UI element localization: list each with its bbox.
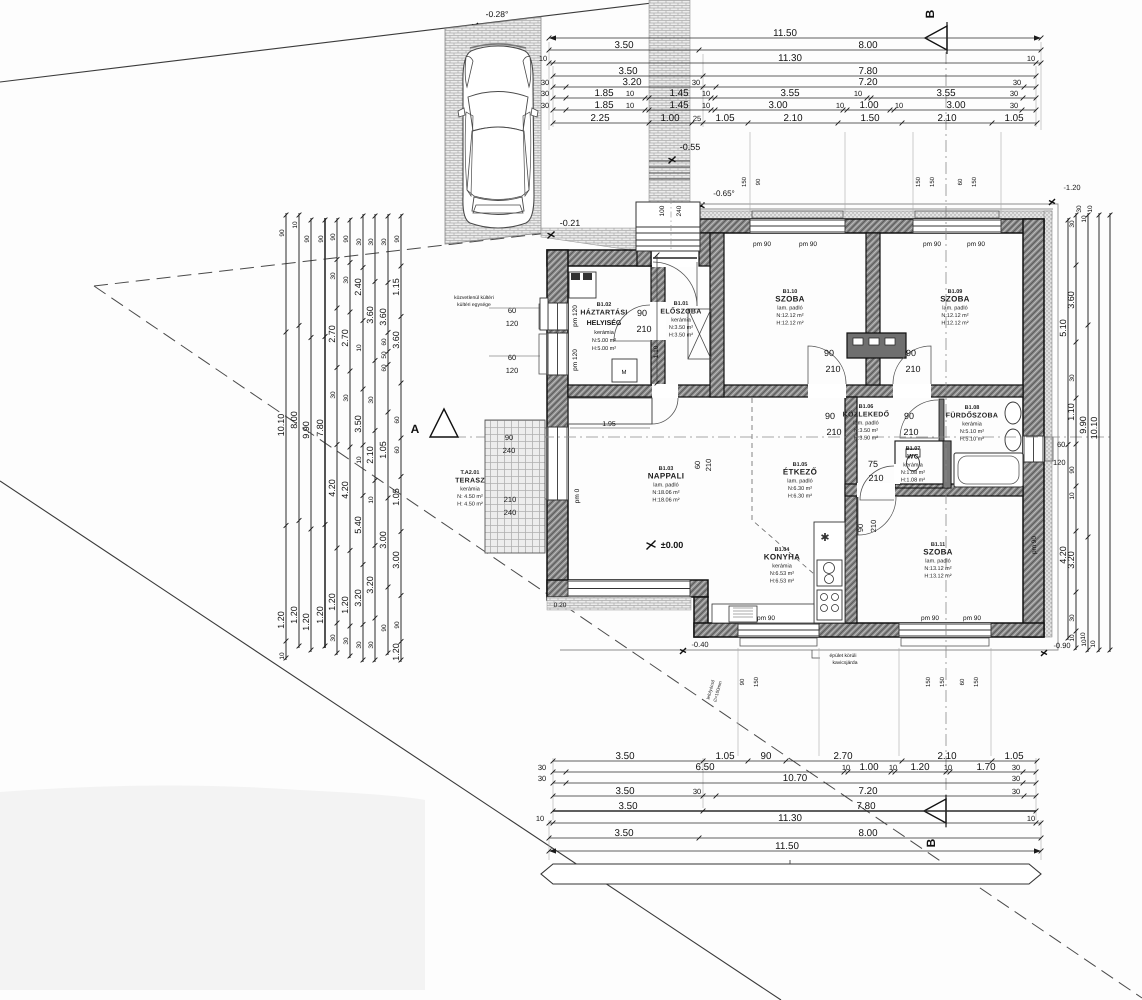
window east bathroom [1023,436,1044,462]
svg-text:90: 90 [906,348,916,358]
svg-text:H:13.12 m²: H:13.12 m² [924,573,951,579]
dimension column right 5 [1109,213,1111,652]
faint gray region bottom-left [0,785,425,990]
svg-text:H:3.50 m²: H:3.50 m² [854,435,878,441]
entrance door leaf [653,257,697,259]
dashed boundary lower (to bottom right) [94,286,1142,998]
svg-text:90: 90 [381,624,388,632]
svg-text:3.50: 3.50 [618,801,638,812]
svg-text:0.20: 0.20 [554,602,567,609]
svg-text:10: 10 [1069,492,1076,500]
svg-text:N:1.08 m²: N:1.08 m² [901,470,925,476]
svg-text:3.60: 3.60 [1066,291,1076,309]
level -0.65 [698,203,705,210]
svg-text:1.95: 1.95 [602,421,616,428]
eaves outline around building [560,204,1058,650]
washing machine [612,359,637,382]
svg-text:2.25: 2.25 [590,113,610,124]
svg-text:11.30: 11.30 [778,813,802,824]
svg-text:5.40: 5.40 [353,516,363,534]
svg-text:150: 150 [915,176,922,187]
svg-text:6.50: 6.50 [695,762,715,773]
dimension row top 3.50/8.00 [549,49,1041,51]
svg-text:1.20: 1.20 [340,596,350,614]
svg-text:90: 90 [824,348,834,358]
window west living terrace door [547,427,568,500]
interior wall between bedrooms [866,233,880,385]
svg-text:150: 150 [973,676,980,687]
bathtub [954,453,1023,487]
interior wall kitchen/rooms east [845,397,857,623]
room label KONYHA B1.04 [764,547,800,585]
svg-text:100: 100 [659,205,666,216]
svg-text:10: 10 [536,814,544,823]
dimension row bottom 6.50 row [553,771,1036,773]
svg-text:1.15: 1.15 [391,278,401,296]
washbasins [1005,402,1021,451]
svg-text:10: 10 [356,456,363,464]
wall east [1023,219,1044,637]
svg-text:HELYISÉG: HELYISÉG [587,318,622,327]
svg-text:90: 90 [1069,466,1076,474]
open-plan dashed divider living/dining [752,398,814,574]
svg-text:N:3.50 m²: N:3.50 m² [854,428,878,434]
svg-text:10: 10 [356,344,363,352]
svg-text:7.80: 7.80 [858,66,878,77]
svg-text:30: 30 [343,394,350,402]
svg-text:60: 60 [957,178,964,185]
svg-text:T.A2.01: T.A2.01 [461,470,480,476]
svg-text:4.20: 4.20 [340,481,350,499]
svg-text:60: 60 [508,306,516,315]
svg-text:150: 150 [753,676,760,687]
svg-text:1.00: 1.00 [859,762,879,773]
svg-text:30: 30 [330,391,337,399]
svg-text:1.00: 1.00 [859,100,879,111]
svg-text:11.50: 11.50 [773,28,797,39]
svg-text:1.05: 1.05 [715,113,735,124]
svg-text:60: 60 [1057,440,1065,449]
svg-text:2.70: 2.70 [340,329,350,347]
svg-text:1.20: 1.20 [327,593,337,611]
svg-text:7.20: 7.20 [858,786,878,797]
svg-text:WC: WC [907,453,918,460]
svg-text:2.70: 2.70 [833,751,853,762]
svg-text:pm 90: pm 90 [1031,536,1038,554]
svg-text:30: 30 [1069,374,1076,382]
svg-text:KÖZLEKEDŐ: KÖZLEKEDŐ [843,409,890,418]
porch pier left [637,236,651,266]
toilet [906,449,920,471]
door arc corridor->B1.10 [808,346,846,384]
svg-text:3.20: 3.20 [622,77,642,88]
svg-text:2.10: 2.10 [783,113,803,124]
window north room B1.09 [913,219,1001,233]
svg-text:KONYHA: KONYHA [764,552,800,561]
svg-text:pm 0: pm 0 [574,488,581,503]
svg-text:10: 10 [836,101,844,110]
svg-text:10: 10 [1090,640,1097,648]
svg-text:210: 210 [825,364,840,374]
svg-text:1.05: 1.05 [715,751,735,762]
insulation layer north wall [698,211,1052,219]
dimension column left 4 [324,218,326,648]
svg-text:60: 60 [381,338,388,346]
svg-text:60: 60 [959,678,966,685]
porch centre line [670,198,672,252]
room label WC B1.07 [901,446,925,484]
svg-text:M: M [621,369,626,376]
svg-text:1.10: 1.10 [1066,403,1076,421]
insulation layer east wall [1044,211,1052,637]
door arc hall->living [652,398,678,424]
svg-text:90: 90 [343,235,350,243]
svg-text:lam. padló: lam. padló [653,481,678,488]
dimension row top 1.85 row A [553,97,1036,99]
svg-text:3.50: 3.50 [615,786,635,797]
boundary tick [472,23,478,29]
svg-text:1.20: 1.20 [910,762,930,773]
door arc wc [860,466,894,500]
svg-text:pm 90: pm 90 [753,241,771,248]
svg-text:10.10: 10.10 [1089,417,1099,440]
svg-text:240: 240 [676,205,683,216]
window sills north [752,211,999,218]
dimension column right 1 [1067,218,1069,640]
svg-text:30: 30 [692,78,700,87]
svg-text:10: 10 [842,763,850,772]
interior wall below WC/bath [845,484,1023,496]
svg-text:1.20: 1.20 [289,606,299,624]
door opening B1.11 door [857,483,895,497]
gravel annotation [812,650,820,658]
svg-text:N:12.12 m²: N:12.12 m² [941,313,968,319]
svg-text:kerámia: kerámia [671,316,692,323]
svg-text:N:13.12 m²: N:13.12 m² [924,566,951,572]
dimension row top 11.50 [549,37,1041,39]
svg-text:10: 10 [1027,54,1035,63]
svg-text:N:5.10 m²: N:5.10 m² [960,429,984,435]
svg-text:3.60: 3.60 [365,306,375,324]
svg-text:11.50: 11.50 [775,841,799,852]
svg-text:1.20: 1.20 [391,643,401,661]
svg-text:30: 30 [343,276,350,284]
svg-text:lam. padló: lam. padló [853,419,878,426]
svg-text:75: 75 [868,459,878,469]
svg-text:30: 30 [1012,774,1020,783]
svg-text:150: 150 [939,676,946,687]
svg-text:2.10: 2.10 [365,446,375,464]
svg-text:H:1.08 m²: H:1.08 m² [901,477,925,483]
svg-text:10: 10 [895,101,903,110]
svg-text:10: 10 [889,763,897,772]
svg-text:SZOBA: SZOBA [775,294,805,303]
svg-text:30: 30 [368,238,375,246]
svg-text:ÉTKEZŐ: ÉTKEZŐ [783,466,817,476]
dimension row top 3.50/7.80 [553,75,1036,77]
svg-text:H: 4.50 m²: H: 4.50 m² [457,501,483,507]
dimension column right 4 [1098,213,1100,652]
svg-text:3.55: 3.55 [780,88,800,99]
window south kitchen [738,623,819,637]
extension lines to top dims [549,42,1041,212]
svg-text:150: 150 [741,176,748,187]
svg-text:90: 90 [318,235,325,243]
svg-text:1.85: 1.85 [594,100,614,111]
svg-text:lam. padló: lam. padló [942,304,967,311]
svg-text:10: 10 [539,54,547,63]
room label SZOBA B1.10 [775,289,805,327]
door arc bath->corridor [900,400,938,438]
section marker B top [925,26,947,50]
dimension row bottom 3.50/7.80 thick [553,810,1036,812]
svg-text:1.20: 1.20 [276,611,286,629]
svg-text:1.05: 1.05 [1004,751,1024,762]
svg-text:SZOBA: SZOBA [940,294,970,303]
exterior steps [649,161,690,179]
svg-text:150: 150 [925,676,932,687]
entrance porch [636,202,700,251]
svg-text:120: 120 [1053,458,1066,467]
svg-text:pm 90: pm 90 [963,615,981,622]
section line A-A (dash-dot horizontal) [432,436,1110,438]
svg-text:2.70: 2.70 [327,325,337,343]
svg-text:H:6.30 m²: H:6.30 m² [788,493,812,499]
dimension column right 3 [1087,213,1089,652]
door opening corridor-B1.10 [808,384,846,398]
terrace [485,420,545,553]
interior wall hall/room B1.10 [710,233,724,397]
dimension row bottom 11.50 [549,850,1041,852]
svg-text:30: 30 [1010,101,1018,110]
svg-text:1.45: 1.45 [669,88,689,99]
svg-text:pm 90: pm 90 [799,241,817,248]
door opening hall-living [652,384,678,398]
svg-text:120: 120 [506,319,519,328]
window sills west [539,304,547,499]
section line B-B (dash-dot vertical) [945,30,947,828]
svg-text:2.10: 2.10 [937,751,957,762]
svg-text:kerámia: kerámia [962,420,983,427]
svg-text:30: 30 [1012,787,1020,796]
level -0.21 [548,232,555,239]
svg-text:120: 120 [506,366,519,375]
fence bar [541,864,1041,884]
svg-text:8.00: 8.00 [858,40,878,51]
svg-text:N:18.06 m²: N:18.06 m² [652,490,679,496]
svg-text:3.50: 3.50 [618,66,638,77]
dimension row bottom 3.50/7.20 [553,795,1036,797]
svg-text:1.20: 1.20 [301,613,311,631]
dimension row bottom 3.50/8.00 [549,837,1041,839]
svg-text:-0.21: -0.21 [560,218,581,228]
gravel strip south of living room [547,597,691,610]
svg-text:kültéri egysége: kültéri egysége [457,302,491,308]
interior wall utility/hall [651,266,665,385]
svg-text:30: 30 [1069,614,1076,622]
svg-text:30: 30 [1013,78,1021,87]
room label K&#214;ZLEKED&#336; B1.06 [843,404,890,442]
door arc entrance->hall [653,262,697,306]
svg-text:210: 210 [504,495,517,504]
dimension row top 3.20 row [553,86,1036,88]
svg-text:9.90: 9.90 [1078,416,1088,434]
svg-text:NAPPALI: NAPPALI [648,471,685,480]
svg-text:3.20: 3.20 [1066,551,1076,569]
svg-text:B1.02: B1.02 [597,302,612,308]
svg-text:lam. padló: lam. padló [787,477,812,484]
svg-text:150: 150 [971,176,978,187]
svg-text:1.85: 1.85 [594,88,614,99]
room label SZOBA B1.09 [940,289,970,327]
property boundary line bottom (solid diagonal) [0,481,781,1000]
door opening entrance [652,250,698,267]
svg-text:10: 10 [292,221,299,229]
wall step south [694,597,708,637]
svg-text:B: B [923,9,937,18]
svg-text:✱: ✱ [820,532,829,544]
svg-text:4.20: 4.20 [327,479,337,497]
dimension row bottom 11.30 [549,822,1041,824]
svg-text:FÜRDŐSZOBA: FÜRDŐSZOBA [946,410,998,419]
room label H&#193;ZTART&#193;SI B1.02 [580,302,627,317]
svg-text:30: 30 [343,637,350,645]
svg-text:90: 90 [279,229,286,237]
niche lines living room top-left [568,398,652,424]
door opening wc door [894,464,900,484]
dimension row bottom 10.70 [553,782,1036,784]
extension lines to bottom dims [549,648,1041,860]
svg-text:240: 240 [503,446,516,455]
svg-text:3.20: 3.20 [365,576,375,594]
svg-text:7.20: 7.20 [858,77,878,88]
dimension column left 5 [336,218,338,655]
utility cupboard [569,272,596,298]
dimension column left 10 [400,214,402,662]
svg-text:90: 90 [505,433,513,442]
svg-text:pm 90: pm 90 [757,615,775,622]
dimension row top 2.25 row [553,122,1037,124]
svg-text:H:12.12 m²: H:12.12 m² [941,320,968,326]
svg-text:N:5.00 m²: N:5.00 m² [592,338,616,344]
svg-text:90: 90 [394,235,401,243]
svg-text:1.45: 1.45 [669,100,689,111]
svg-text:H:5.00 m²: H:5.00 m² [592,346,616,352]
interior wall corridor/bath partition [939,399,944,441]
window sill east [1045,437,1053,461]
dimension column left 6 [349,218,351,658]
window south room B1.11 [899,623,991,637]
svg-text:60: 60 [693,461,702,469]
svg-text:B1.08: B1.08 [965,405,980,411]
svg-text:2.40: 2.40 [353,278,363,296]
svg-text:30: 30 [381,238,388,246]
svg-text:N:6.53 m²: N:6.53 m² [770,571,794,577]
svg-text:60: 60 [394,416,401,424]
svg-text:30: 30 [1012,763,1020,772]
svg-text:H:3.50 m²: H:3.50 m² [669,332,693,338]
svg-text:50: 50 [381,351,388,359]
svg-text:-0.40: -0.40 [691,640,708,649]
svg-text:60: 60 [394,446,401,454]
svg-text:közvetlenül kültéri: közvetlenül kültéri [454,295,494,301]
svg-text:60: 60 [508,353,516,362]
svg-text:90: 90 [825,411,835,421]
svg-text:H:6.53 m²: H:6.53 m² [770,578,794,584]
svg-text:1.50: 1.50 [860,113,880,124]
svg-text:N:6.30 m²: N:6.30 m² [788,486,812,492]
svg-text:3.60: 3.60 [391,331,401,349]
svg-text:pm 90: pm 90 [923,241,941,248]
niche dim 1.95 [570,427,650,429]
svg-text:10: 10 [944,763,952,772]
svg-text:210: 210 [905,364,920,374]
room label EL&#336;SZOBA B1.01 [660,301,701,339]
level -0.55 [669,157,676,164]
svg-text:N: 4.50 m²: N: 4.50 m² [457,494,483,500]
svg-text:-0.28°: -0.28° [486,9,509,19]
svg-text:H:18.06 m²: H:18.06 m² [652,497,679,503]
kitchen counter south [712,604,814,623]
svg-text:TERASZ: TERASZ [455,477,485,484]
svg-text:3.50: 3.50 [614,40,634,51]
svg-text:kerámia: kerámia [772,562,793,569]
room label SZOBA B1.11 [923,542,953,580]
room label TERASZ T.A2.01 [455,470,485,508]
svg-text:210: 210 [826,427,841,437]
svg-text:30: 30 [356,238,363,246]
svg-text:150: 150 [929,176,936,187]
svg-text:30: 30 [330,272,337,280]
room label F&#220;RD&#336;SZOBA B1.08 [946,405,998,443]
svg-text:-0.65°: -0.65° [713,189,734,198]
svg-text:10: 10 [854,89,862,98]
dimension column left 8 [374,214,376,662]
svg-text:1.00: 1.00 [660,113,680,124]
svg-text:210: 210 [903,427,918,437]
svg-text:30: 30 [538,763,546,772]
svg-text:210: 210 [869,520,878,533]
svg-text:3.60: 3.60 [378,308,388,326]
svg-text:3.50: 3.50 [614,828,634,839]
svg-text:30: 30 [541,78,549,87]
window west utility upper [547,303,568,330]
svg-text:±0.00: ±0.00 [661,540,683,550]
svg-text:90: 90 [637,308,647,318]
svg-text:-0.55: -0.55 [680,142,701,152]
wall north (main) [698,219,1044,233]
svg-text:1.05: 1.05 [391,488,401,506]
door arc corridor->B1.11 [858,497,896,535]
walkway to entrance (horizontal) [541,228,637,251]
svg-text:pm 120: pm 120 [572,305,579,327]
dashed boundary upper (to -0.21) [94,233,548,286]
dimension row top 1.85 row B [553,109,1036,111]
svg-text:lam. padló: lam. padló [925,557,950,564]
driveway paving [445,17,541,244]
dimension column left 9 [387,214,389,655]
section marker A [430,409,458,437]
svg-text:8.00: 8.00 [289,411,299,429]
walkway strip (vertical, to street) [649,0,690,203]
svg-text:8.00: 8.00 [858,828,878,839]
svg-text:90: 90 [739,678,746,685]
svg-text:10: 10 [626,89,634,98]
room label NAPPALI B1.03 [648,466,685,504]
dimension row top 11.30 [549,62,1041,64]
kitchen counter column [814,522,845,623]
svg-text:30: 30 [330,634,337,642]
